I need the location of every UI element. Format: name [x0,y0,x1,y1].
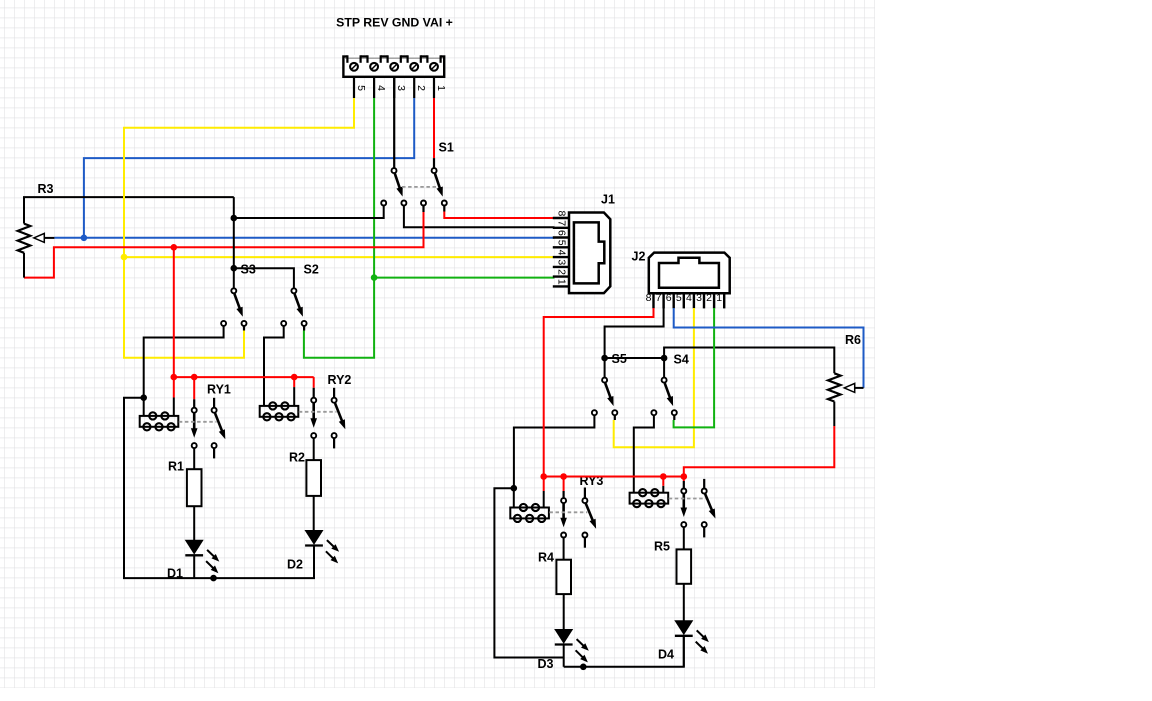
green wire branch to J1 pin2 [374,277,554,279]
svg-text:RY2: RY2 [328,373,352,387]
wire S3 to S2 pole [234,268,294,288]
wire RY1 to R1 [193,448,195,469]
wire RY1 coil right terminal [173,398,175,416]
wire S3 c1 to RY1 junction [144,326,224,398]
wire S1 pole B stub [433,158,435,168]
junction right rail dot 4 [681,473,688,480]
wire D2 cathode [313,546,315,579]
wire RY3a coil left terminal [513,488,515,507]
svg-text:1: 1 [556,279,568,285]
wire RY2 to R2 [313,438,315,460]
junction yellow node Y [121,254,128,261]
switch S4 [662,378,667,383]
black wire J2 pin7 to S5/S4 [605,293,664,378]
red wire J2 pin8 to right rail [544,308,654,477]
svg-text:7: 7 [656,292,662,304]
wire R1 to D1 [193,506,195,540]
wire D3 cathode [563,645,565,667]
red wire S1 c3 to R3 bottom [24,212,424,278]
wire S5 c1 to RY3a junction [514,415,595,488]
svg-text:R5: R5 [654,539,670,553]
junction rail dot 2 [191,374,198,381]
junction right bottom rail dot [580,664,587,671]
switch S5 [602,378,607,383]
wire D4 cathode [683,636,685,667]
junction S5 node [601,355,608,362]
resistor R5 [677,549,692,583]
svg-text:8: 8 [646,292,652,304]
svg-text:2: 2 [556,269,568,275]
svg-text:S2: S2 [304,262,319,276]
svg-text:3: 3 [395,85,407,91]
blue wire J2 pin6 to R6 wiper [674,308,864,388]
relay coil RY3b [639,489,646,496]
red drop RY3a coil [543,477,545,492]
relay RY2 switch pole 2 (open) [333,388,335,398]
svg-text:R1: R1 [168,460,184,474]
junction S3 node [231,265,238,272]
wire S5 c2 stub [614,415,616,420]
junction RY3 node [511,485,518,492]
wire RY3b to R5 [683,527,685,549]
junction node T [231,215,238,222]
RY1 dashed actuator link [179,421,217,423]
wire S4 c2 stub [673,415,675,420]
wire S1 c2 to J1 pin7 [404,206,555,228]
svg-text:3: 3 [696,292,702,304]
wire S2 c1 to RY2 coil [264,326,284,406]
green wire pin4 to S2 [304,98,374,358]
svg-text:6: 6 [666,292,672,304]
wire bottom rail right module [564,636,684,667]
R3 wiper arrow [39,237,54,239]
junction red node [171,244,178,251]
blue wire pin2 to R3 wiper / J1 pin6 [84,98,414,238]
resistor R2 [306,460,321,496]
svg-text:4: 4 [375,85,387,91]
red drop RY1 coil [173,377,175,397]
red drop RY3b switch [683,477,685,482]
svg-text:S3: S3 [241,262,256,276]
wire RY3b coil right terminal [662,486,664,493]
red drop RY3a switch [563,477,565,492]
junction right rail dot 3 [660,473,667,480]
relay RY3a switch pole 2 (open) [584,488,586,499]
svg-text:3: 3 [556,259,568,265]
junction blue node B [81,235,88,242]
junction S4 node [661,355,668,362]
svg-text:4: 4 [556,250,568,256]
svg-text:S4: S4 [674,353,689,367]
svg-text:D3: D3 [538,657,554,671]
potentiometer R6 [828,373,841,401]
junction rail dot 3 [291,374,298,381]
relay RY2 switch pole 1 (closed) [313,388,315,398]
red wire S1 c4 to J1 pin8 [444,212,554,219]
svg-text:J2: J2 [632,250,646,264]
screw terminal block X1 [343,57,444,77]
grid background [0,0,875,688]
yellow wire pin5 to node Y (J1 pin4 / S3) [124,98,354,358]
LED D4 [675,621,692,634]
wire S2 c2 stub [303,326,305,331]
red rail left module [174,376,314,378]
red drop RY2 switch [313,377,315,388]
terminal pin stubs [353,77,355,98]
svg-text:J1: J1 [601,193,615,207]
switch S3 [231,288,236,293]
wire D1 cathode [193,555,195,578]
connector J1 [569,213,610,294]
junction rail dot 1 [171,374,178,381]
svg-text:R3: R3 [38,182,54,196]
RY3b dashed actuator link [669,498,707,500]
resistor R1 [187,469,202,506]
svg-text:D4: D4 [658,648,674,662]
wire S1 c3 stub [422,206,424,213]
svg-text:S1: S1 [439,141,454,155]
svg-text:2: 2 [706,292,712,304]
switch S1 [392,168,397,173]
wire S1 c1 to node T [234,206,384,219]
wire left loop to D2 [124,398,314,578]
wire R3 top lead [24,197,234,224]
red drop RY2 coil [293,377,295,387]
relay coil RY3a [520,504,527,511]
svg-text:RY1: RY1 [207,383,231,397]
svg-text:R4: R4 [538,550,554,564]
junction right rail dot 2 [560,473,567,480]
svg-text:4: 4 [686,292,692,304]
svg-text:8: 8 [556,210,568,216]
LED D3 [555,630,572,643]
svg-text:2: 2 [415,85,427,91]
red wire R6 bottom to rail [684,426,835,477]
svg-text:6: 6 [556,230,568,236]
yellow wire J2 pin4 to S5 [614,308,694,447]
wire R3 bottom lead [23,253,25,278]
wire S4 c1 to RY3b coil [634,415,654,493]
wire RY1 coil left terminal [143,398,145,416]
junction right rail dot 1 [540,473,547,480]
wire RY2 coil right terminal [293,387,295,406]
red drop RY3b coil [662,477,664,486]
wire R4 to D3 [563,594,565,630]
wire right loop [494,488,563,657]
relay RY1 switch pole 2 (open) [213,398,215,408]
wire node T vertical [233,197,235,288]
RY2 dashed actuator link [299,411,337,413]
wire S4 node to R6 top [664,348,834,374]
blue wire horizontal to J1 pin6 [54,237,554,239]
relay coil RY2 [269,402,276,409]
red wire pin1 to S1 pole B [433,98,435,158]
RY3a dashed actuator link [549,511,587,513]
yellow wire branch to J1 pin4 [124,256,555,258]
green wire J2 pin2 to S4 [674,308,715,427]
switch S2 [291,288,296,293]
relay RY3a switch pole 1 (closed) [562,491,564,498]
red wire S1 branch down [173,247,175,377]
junction green node G [371,274,378,281]
relay coil RY1 [149,412,156,419]
svg-text:5: 5 [556,240,568,246]
svg-text:1: 1 [435,85,447,91]
wire R5 to D4 [683,584,685,621]
red rail right module [544,476,684,478]
LED D2 [305,531,322,544]
relay RY3b switch pole 1 (closed) [683,481,685,489]
wire RY3a coil right terminal [543,491,545,508]
relay RY3b switch pole 2 (open) [703,479,705,489]
red drop RY1 switch [193,377,195,399]
wire S5 to S4 pole [605,358,665,378]
relay RY1 switch pole 1 (closed) [193,399,195,407]
black wire pin3 to S1 pole A [393,77,395,168]
junction bottom rail dot [210,575,217,582]
svg-text:D2: D2 [287,557,303,571]
wire R6 bottom lead [833,402,835,427]
wire R2 to D2 [313,496,315,531]
svg-text:1: 1 [716,292,722,304]
wire S1 c4 stub [443,206,445,212]
wire RY3a to R4 [563,538,565,560]
svg-text:5: 5 [676,292,682,304]
resistor R4 [556,560,571,594]
potentiometer R3 [18,224,31,253]
svg-text:R2: R2 [289,451,305,465]
R6 wiper arrow [849,387,863,389]
junction RY1 node [140,394,147,401]
LED D1 [186,540,203,553]
svg-text:R6: R6 [845,333,861,347]
svg-text:5: 5 [355,85,367,91]
wire S3 c2 stub [243,326,245,331]
svg-text:STP REV GND VAI +: STP REV GND VAI + [336,16,453,30]
connector J2 [649,253,730,294]
svg-text:7: 7 [556,220,568,226]
